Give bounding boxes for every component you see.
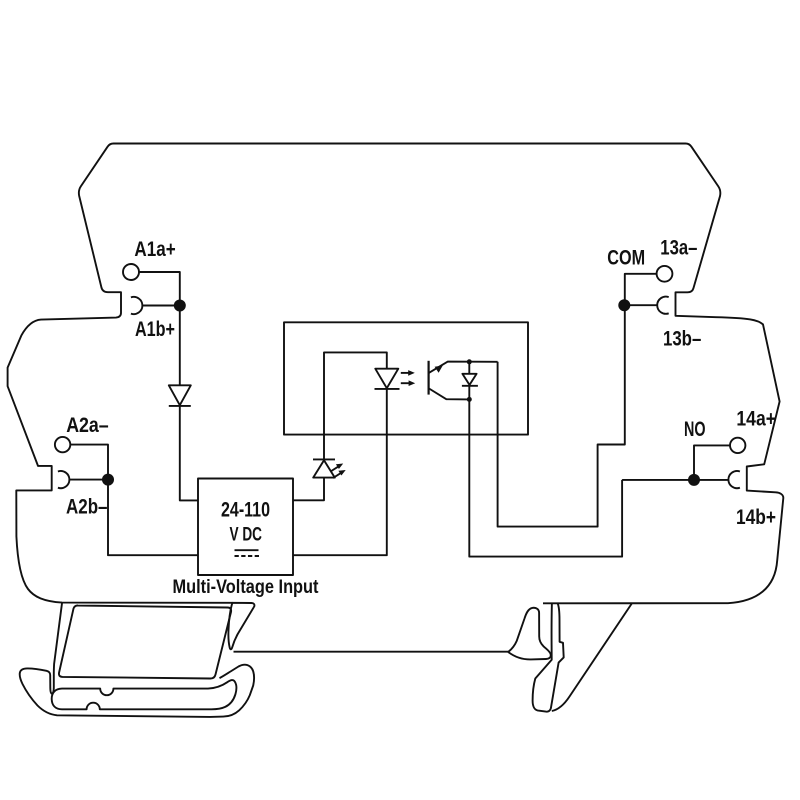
- svg-text:A2a–: A2a–: [66, 414, 109, 437]
- svg-text:A1a+: A1a+: [134, 238, 175, 261]
- svg-text:14a+: 14a+: [736, 408, 776, 431]
- svg-text:A1b+: A1b+: [135, 318, 175, 341]
- svg-text:13a–: 13a–: [660, 237, 697, 260]
- svg-text:13b–: 13b–: [663, 327, 702, 350]
- svg-text:V DC: V DC: [230, 525, 263, 546]
- svg-text:24-110: 24-110: [221, 498, 270, 521]
- svg-text:14b+: 14b+: [736, 506, 776, 529]
- svg-text:NO: NO: [684, 418, 706, 441]
- svg-text:COM: COM: [607, 247, 645, 270]
- svg-text:A2b–: A2b–: [66, 496, 108, 519]
- svg-text:Multi-Voltage Input: Multi-Voltage Input: [173, 576, 319, 598]
